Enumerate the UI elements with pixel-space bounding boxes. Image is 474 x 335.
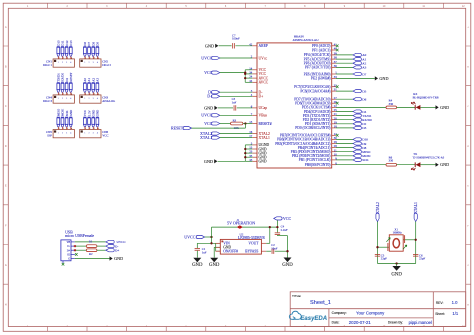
- USB pin D-: [71, 245, 75, 247]
- svg-text:XTAL1: XTAL1: [414, 202, 418, 214]
- svg-text:VCC: VCC: [283, 216, 292, 221]
- svg-text:C: C: [467, 105, 469, 108]
- svg-text:9: 9: [344, 5, 346, 8]
- svg-text:12: 12: [462, 325, 465, 328]
- capacitor C6 22pF: [413, 253, 418, 255]
- EasyEDA logo: [289, 311, 301, 319]
- svg-text:GND: GND: [440, 105, 449, 110]
- svg-text:UVcc: UVcc: [259, 56, 268, 60]
- svg-text:GND: GND: [114, 256, 123, 261]
- net flag D4: [353, 110, 361, 113]
- svg-text:6: 6: [225, 325, 227, 328]
- pin mark D+: [74, 249, 76, 251]
- svg-text:VBus: VBus: [259, 114, 268, 118]
- net flag A2: [353, 62, 361, 65]
- U1 pin 40 PF1: [332, 49, 336, 51]
- U1 pin 12 PB7: [332, 134, 336, 136]
- wire PC6 to flag D5: [336, 90, 353, 92]
- svg-text:TX: TX: [413, 152, 418, 156]
- connector USB body: [61, 240, 71, 261]
- svg-text:GND: GND: [69, 109, 73, 116]
- U1 pin 28 PB4: [332, 147, 336, 149]
- resistor R1 22R: [86, 245, 97, 248]
- crystal X1 16MHz: [387, 243, 389, 251]
- svg-text:4: 4: [146, 325, 148, 328]
- wire XTAL2 to pin: [220, 133, 253, 135]
- wire jumper row: [212, 226, 278, 228]
- no-connect PD6: [336, 102, 339, 105]
- svg-text:5: 5: [185, 5, 187, 8]
- svg-text:TJ-S1608SW6TGLC7K-A5: TJ-S1608SW6TGLC7K-A5: [413, 157, 445, 160]
- U1 pin 32 PC7: [332, 86, 336, 88]
- wire BYPASS to C2: [266, 250, 271, 252]
- svg-text:BL-HQ036D-KV-TRB: BL-HQ036D-KV-TRB: [413, 96, 439, 99]
- svg-text:22pF: 22pF: [381, 257, 388, 261]
- wire PB to flag MISO: [336, 151, 353, 153]
- svg-text:DIGI 1: DIGI 1: [43, 63, 52, 67]
- U1 pin 22 PD5: [332, 106, 336, 108]
- svg-text:DIGI 2: DIGI 2: [102, 63, 111, 67]
- svg-text:RESET: RESET: [69, 72, 73, 81]
- wire D+ to R2: [75, 249, 86, 251]
- svg-text:4: 4: [97, 62, 98, 64]
- svg-text:XTAL1: XTAL1: [259, 136, 271, 140]
- capacitor C7 100nF: [232, 43, 234, 48]
- U1 pin 2 UVcc: [252, 57, 257, 59]
- net flag A3: [353, 66, 361, 69]
- svg-text:E: E: [467, 185, 469, 188]
- svg-text:ID: ID: [67, 254, 70, 257]
- wire GND to C7: [219, 45, 232, 47]
- U1 pin 14 VCC: [252, 69, 257, 71]
- USB pin G: [71, 258, 75, 260]
- net flag MISO: [353, 150, 361, 153]
- svg-text:GND: GND: [440, 162, 449, 167]
- svg-text:3: 3: [66, 62, 67, 64]
- svg-text:G: G: [467, 264, 469, 267]
- svg-text:XTAL1: XTAL1: [200, 135, 212, 140]
- wire VBUS to UVCC flag: [75, 241, 106, 243]
- svg-text:B: B: [5, 66, 7, 69]
- svg-text:2: 2: [62, 98, 63, 100]
- U1 pin 16 XTAL2: [252, 133, 257, 135]
- wire UVCC flag to input rail: [205, 236, 212, 238]
- net flag A1: [353, 58, 361, 61]
- svg-text:3: 3: [66, 133, 67, 135]
- U1 pin 15 GND: [252, 148, 257, 150]
- LED RX BL-HQ036D-KV-TRB: [414, 105, 416, 110]
- U1 pin 41 PF0: [332, 45, 336, 47]
- svg-text:LP2985-33DBVR: LP2985-33DBVR: [238, 236, 265, 240]
- net flag D6: [353, 98, 361, 101]
- svg-text:1uF: 1uF: [232, 100, 237, 104]
- wire crystal right: [403, 239, 416, 241]
- svg-text:32: 32: [334, 83, 338, 87]
- capacitor C4 2.2uF: [275, 232, 280, 234]
- wire PD to flag D2: [336, 123, 353, 125]
- svg-text:F: F: [468, 224, 470, 227]
- svg-text:GND: GND: [282, 263, 293, 268]
- svg-text:3: 3: [93, 62, 94, 64]
- connector CN3 ANALOG pins: [83, 82, 86, 84]
- wire XTAL1 to pin: [220, 137, 253, 139]
- svg-text:G: G: [5, 264, 7, 267]
- wire PE2 to GND: [336, 77, 375, 79]
- svg-text:ON/OFF#: ON/OFF#: [223, 250, 238, 254]
- net flag D+ (USB): [106, 249, 114, 252]
- wire GND vertical bus: [244, 145, 246, 161]
- net flag VCC (VCC/AVCC pins): [211, 71, 219, 74]
- svg-text:10nF: 10nF: [271, 246, 278, 250]
- svg-text:1.0: 1.0: [452, 300, 458, 305]
- svg-text:R2: R2: [89, 252, 93, 256]
- svg-text:GND: GND: [96, 109, 100, 116]
- U1 pin 26 PD6: [332, 102, 336, 104]
- svg-text:PC6(OC3A/OC4A#): PC6(OC3A/OC4A#): [300, 89, 331, 93]
- svg-text:9: 9: [344, 325, 346, 328]
- wire UVCC to VBus pin: [220, 114, 253, 116]
- no-connect PF1: [336, 49, 339, 52]
- USB shield pin: [62, 261, 64, 263]
- svg-text:VCC: VCC: [102, 134, 108, 138]
- svg-text:A: A: [5, 26, 7, 29]
- wire D+ to pin: [220, 95, 253, 97]
- svg-text:UVCC: UVCC: [201, 113, 212, 118]
- svg-text:1uF: 1uF: [202, 250, 207, 254]
- capacitor C5 22pF: [375, 253, 380, 255]
- svg-text:SCK: SCK: [362, 158, 369, 162]
- svg-text:12: 12: [462, 5, 465, 8]
- connector CN1 DIGI 1 pins: [57, 46, 60, 48]
- net flag UVCC (USB): [106, 240, 114, 243]
- svg-text:1: 1: [27, 325, 29, 328]
- svg-text:D+: D+: [67, 249, 71, 252]
- net flag UVCC (UVcc pin): [211, 56, 219, 59]
- svg-text:RESET#: RESET#: [259, 122, 272, 126]
- wire RESET flag to RESET net: [192, 127, 246, 129]
- wire C2 to gnd rail: [275, 250, 288, 252]
- svg-text:D5: D5: [362, 89, 366, 93]
- capacitor C2 10nF: [271, 249, 273, 254]
- power port GND (PE2/HWB): [375, 76, 378, 80]
- svg-text:Your Company: Your Company: [356, 310, 385, 315]
- U1 pin 17 XTAL1: [252, 137, 257, 139]
- net flag D- (USB): [106, 245, 114, 248]
- U1 pin 27 PD7: [332, 98, 336, 100]
- svg-text:A3: A3: [362, 66, 366, 70]
- U1 pin 23 GND: [252, 152, 257, 154]
- svg-text:C: C: [5, 105, 7, 108]
- svg-text:GND: GND: [209, 263, 220, 268]
- wire VCC bus stubs: [245, 69, 252, 71]
- svg-text:VB: VB: [66, 241, 70, 244]
- connector CN5 ISP body: [53, 130, 74, 138]
- svg-text:EasyEDA: EasyEDA: [300, 316, 327, 322]
- svg-text:10: 10: [383, 5, 386, 8]
- capacitor C3 1uF: [233, 105, 235, 110]
- wire D- to R1: [75, 245, 86, 247]
- U1 pin 10 PB2: [332, 155, 336, 157]
- ground output rail: [284, 258, 292, 263]
- wire GND to C3: [218, 107, 233, 109]
- svg-text:100nF: 100nF: [232, 37, 240, 41]
- wire VCC flag down: [276, 220, 278, 232]
- svg-text:4: 4: [146, 5, 148, 8]
- wire PD5 to R4 (TX LED): [336, 106, 386, 108]
- svg-text:XTAL2: XTAL2: [376, 202, 380, 214]
- U1 pin 20 PD2: [332, 119, 336, 121]
- wire GND bus stubs: [245, 144, 252, 146]
- no-connect PF0: [336, 45, 339, 48]
- connector CN4 DIGI 3 pins: [57, 82, 60, 84]
- U1 pin 6 UCap: [252, 107, 257, 109]
- capacitor C1 1uF drop: [196, 243, 198, 248]
- svg-text:1: 1: [84, 133, 85, 135]
- svg-text:UVCC: UVCC: [201, 55, 212, 60]
- svg-text:RESET: RESET: [171, 125, 184, 130]
- svg-text:D: D: [5, 145, 7, 148]
- svg-text:GND: GND: [204, 159, 213, 164]
- ground C1: [193, 258, 201, 263]
- svg-text:2: 2: [67, 5, 69, 8]
- wire XTAL2 rail: [377, 222, 379, 264]
- power port GND (USB): [110, 256, 113, 260]
- net flag RX/D0: [353, 118, 361, 121]
- wire PB to flag D9: [336, 143, 353, 145]
- wire PF to flag A3: [336, 66, 353, 68]
- wire C3 to UCap pin: [237, 107, 253, 109]
- svg-text:330: 330: [389, 102, 394, 106]
- U1 pin 38 PF5: [332, 58, 336, 60]
- svg-text:H: H: [5, 304, 7, 307]
- LED TX TJ-S1608SW6TGLC7K-A5: [414, 162, 416, 167]
- svg-text:PB1 (PCINT1/SCLK): PB1 (PCINT1/SCLK): [299, 158, 332, 162]
- USB pin VB: [71, 241, 75, 243]
- svg-text:10: 10: [383, 325, 386, 328]
- svg-text:UVCC: UVCC: [184, 234, 195, 239]
- svg-text:D+: D+: [115, 249, 119, 253]
- wire ON/OFF tie: [215, 243, 217, 251]
- wire PB to flag MOSI: [336, 155, 353, 157]
- U1 pin 36 PF7: [332, 66, 336, 68]
- net flag D7: [353, 72, 361, 75]
- svg-text:ANALOG: ANALOG: [102, 99, 116, 103]
- svg-text:2.2uF: 2.2uF: [281, 228, 288, 232]
- svg-text:GND: GND: [391, 273, 402, 278]
- wire R6 to LED TX: [397, 164, 416, 166]
- no-connect USB ID: [75, 253, 78, 256]
- U1 pin 18 PD0: [332, 127, 336, 129]
- wire PB to flag SCK: [336, 159, 353, 161]
- svg-text:1: 1: [58, 133, 59, 135]
- net flag VCC (5V out): [274, 217, 282, 220]
- U1 pin 21 PD3: [332, 115, 336, 117]
- U1 pin 8 PB0: [332, 164, 336, 166]
- connector CN1 DIGI 1 body: [53, 59, 74, 67]
- net flag D8: [353, 146, 361, 149]
- wire PD to flag D4: [336, 111, 353, 113]
- svg-text:40: 40: [334, 47, 338, 51]
- svg-text:3: 3: [106, 325, 108, 328]
- svg-text:UCap: UCap: [259, 106, 268, 110]
- connector CN6 VCC pins: [83, 116, 86, 118]
- junction crystal left: [376, 246, 378, 248]
- net flag D9: [353, 142, 361, 145]
- net flag XTAL1 (crystal): [414, 213, 417, 221]
- wire VOUT to rail: [266, 242, 270, 244]
- ground regulator: [210, 258, 218, 263]
- svg-text:8: 8: [304, 325, 306, 328]
- net flag D+ (USB D+): [211, 95, 219, 98]
- pin mark D-: [74, 245, 76, 247]
- wire PB0 to R6 (RX LED): [336, 164, 386, 166]
- U1 pin 37 PF6: [332, 62, 336, 64]
- IC U1 BRAIN ATMEGA32U4-AU body: [257, 43, 332, 168]
- wire GND flag to GND bus: [218, 160, 246, 162]
- svg-text:TITLE:: TITLE:: [292, 294, 301, 298]
- svg-text:2020-07-21: 2020-07-21: [349, 320, 372, 325]
- junction VIN: [210, 242, 212, 244]
- resistor R2 22R: [86, 249, 97, 252]
- svg-text:PE2 (HWB#): PE2 (HWB#): [311, 77, 331, 81]
- junction input rail: [210, 236, 212, 238]
- U1 pin 39 PF4: [332, 54, 336, 56]
- svg-text:PD0 (OC0B/SCL/INT0): PD0 (OC0B/SCL/INT0): [295, 126, 331, 130]
- svg-text:1: 1: [58, 98, 59, 100]
- wire PF to flag A2: [336, 62, 353, 64]
- junction crystal gnd: [395, 262, 397, 264]
- wire LED TX to GND: [420, 164, 435, 166]
- svg-text:B: B: [467, 66, 469, 69]
- svg-text:GND: GND: [259, 160, 267, 164]
- junction VOUT rail: [269, 226, 271, 228]
- junction gnd rail: [286, 250, 288, 252]
- resistor R4 330: [386, 106, 397, 109]
- wire D- to pin: [220, 91, 253, 93]
- svg-text:pippi.manoel: pippi.manoel: [409, 320, 432, 325]
- net flag TX/D1: [353, 114, 361, 117]
- power port GND (RX LED): [436, 105, 439, 109]
- svg-text:R3: R3: [233, 118, 237, 122]
- svg-text:5: 5: [185, 325, 187, 328]
- wire XTAL1 rail: [415, 222, 417, 264]
- svg-text:Drawn By:: Drawn By:: [388, 321, 403, 325]
- svg-text:PE6 (INT.6/AIN0): PE6 (INT.6/AIN0): [304, 72, 332, 76]
- svg-text:Date:: Date:: [332, 321, 340, 325]
- svg-text:G: G: [68, 258, 70, 261]
- connector CN4 DIGI 3 body: [53, 95, 74, 103]
- wire VCC to R3: [220, 123, 231, 125]
- U1 pin 25 PD4: [332, 111, 336, 113]
- resistor R6 330: [386, 163, 397, 166]
- crystal lead marks: [386, 238, 390, 242]
- net flag UVCC (VBus pin): [211, 114, 219, 117]
- svg-text:3: 3: [93, 98, 94, 100]
- net flag SCK: [353, 158, 361, 161]
- resistor R3 10K: [231, 122, 243, 125]
- svg-text:3: 3: [106, 5, 108, 8]
- net flag XTAL1: [211, 136, 219, 139]
- junction GND bus: [244, 148, 246, 150]
- wire PB to flag D8: [336, 147, 353, 149]
- svg-text:D7: D7: [362, 72, 366, 76]
- U1 pin 19 PD1: [332, 123, 336, 125]
- svg-text:3: 3: [93, 133, 94, 135]
- svg-text:D+: D+: [207, 94, 213, 99]
- net flag D5: [353, 90, 361, 93]
- svg-text:GND: GND: [192, 263, 203, 268]
- net flag XTAL2 (crystal): [376, 213, 379, 221]
- svg-text:4: 4: [97, 98, 98, 100]
- USB pin ID: [71, 253, 75, 255]
- wire C4 to gnd rail: [276, 234, 278, 237]
- connector CN5 ISP pins: [57, 116, 60, 118]
- U1 pin 13 RESET#: [252, 123, 257, 125]
- svg-text:H: H: [467, 304, 469, 307]
- svg-text:GND: GND: [204, 105, 213, 110]
- wire crystal gnd rail: [378, 263, 416, 265]
- svg-text:VCC: VCC: [204, 121, 213, 126]
- svg-text:GND: GND: [379, 76, 388, 81]
- regulator U2 LP2985-33DBVR body: [220, 239, 261, 254]
- svg-text:1/1: 1/1: [452, 311, 458, 316]
- wire PD7 to flag D6: [336, 98, 353, 100]
- svg-text:A3: A3: [96, 78, 100, 82]
- svg-text:Company:: Company:: [332, 311, 347, 315]
- U1 pin 30 PB6: [332, 138, 336, 140]
- wire PF to flag A0: [336, 54, 353, 56]
- jumper J1 5V OPERATION: [237, 225, 240, 229]
- svg-text:E: E: [5, 185, 7, 188]
- U1 pin 4 D+: [252, 95, 257, 97]
- connector CN3 ANALOG body: [80, 95, 101, 103]
- U2 pin stubs: [216, 242, 221, 244]
- svg-text:PF1 (ADC1): PF1 (ADC1): [312, 48, 331, 52]
- title block frame: [290, 292, 466, 327]
- svg-text:D-: D-: [67, 245, 70, 248]
- ground crystal: [396, 264, 398, 267]
- svg-text:2: 2: [67, 325, 69, 328]
- wire R4 to LED RX: [397, 106, 416, 108]
- junction VCC bus: [244, 71, 246, 73]
- svg-text:16MHz: 16MHz: [393, 231, 403, 235]
- wire regulator GND pin to ground: [214, 246, 220, 248]
- svg-text:330: 330: [389, 159, 394, 163]
- no-connect USB shield: [62, 263, 65, 266]
- svg-text:GND: GND: [205, 43, 214, 48]
- power port GND (TX LED): [436, 163, 439, 167]
- U1 pin 5 UGND: [252, 144, 257, 146]
- svg-text:Sheet:: Sheet:: [435, 312, 445, 316]
- junction VCC drop: [276, 226, 278, 228]
- wire UVCC to UVcc pin: [220, 57, 253, 59]
- svg-text:1: 1: [27, 5, 29, 8]
- U1 pin 35 GND: [252, 156, 257, 158]
- wire R3 to RESET# pin: [243, 123, 252, 125]
- svg-text:2: 2: [89, 133, 90, 135]
- connector CN6 VCC body: [80, 130, 101, 138]
- U1 pin 24 AVCC: [252, 77, 257, 79]
- svg-text:D9: D9: [96, 42, 100, 46]
- net flag D3: [353, 126, 361, 129]
- net flag XTAL2: [211, 132, 219, 135]
- U1 pin 44 AVCC: [252, 81, 257, 83]
- svg-text:2: 2: [62, 62, 63, 64]
- svg-text:D+: D+: [259, 95, 264, 99]
- U1 pin 33 PE2: [332, 77, 336, 79]
- svg-text:REV:: REV:: [436, 301, 444, 305]
- net flag A0: [353, 53, 361, 56]
